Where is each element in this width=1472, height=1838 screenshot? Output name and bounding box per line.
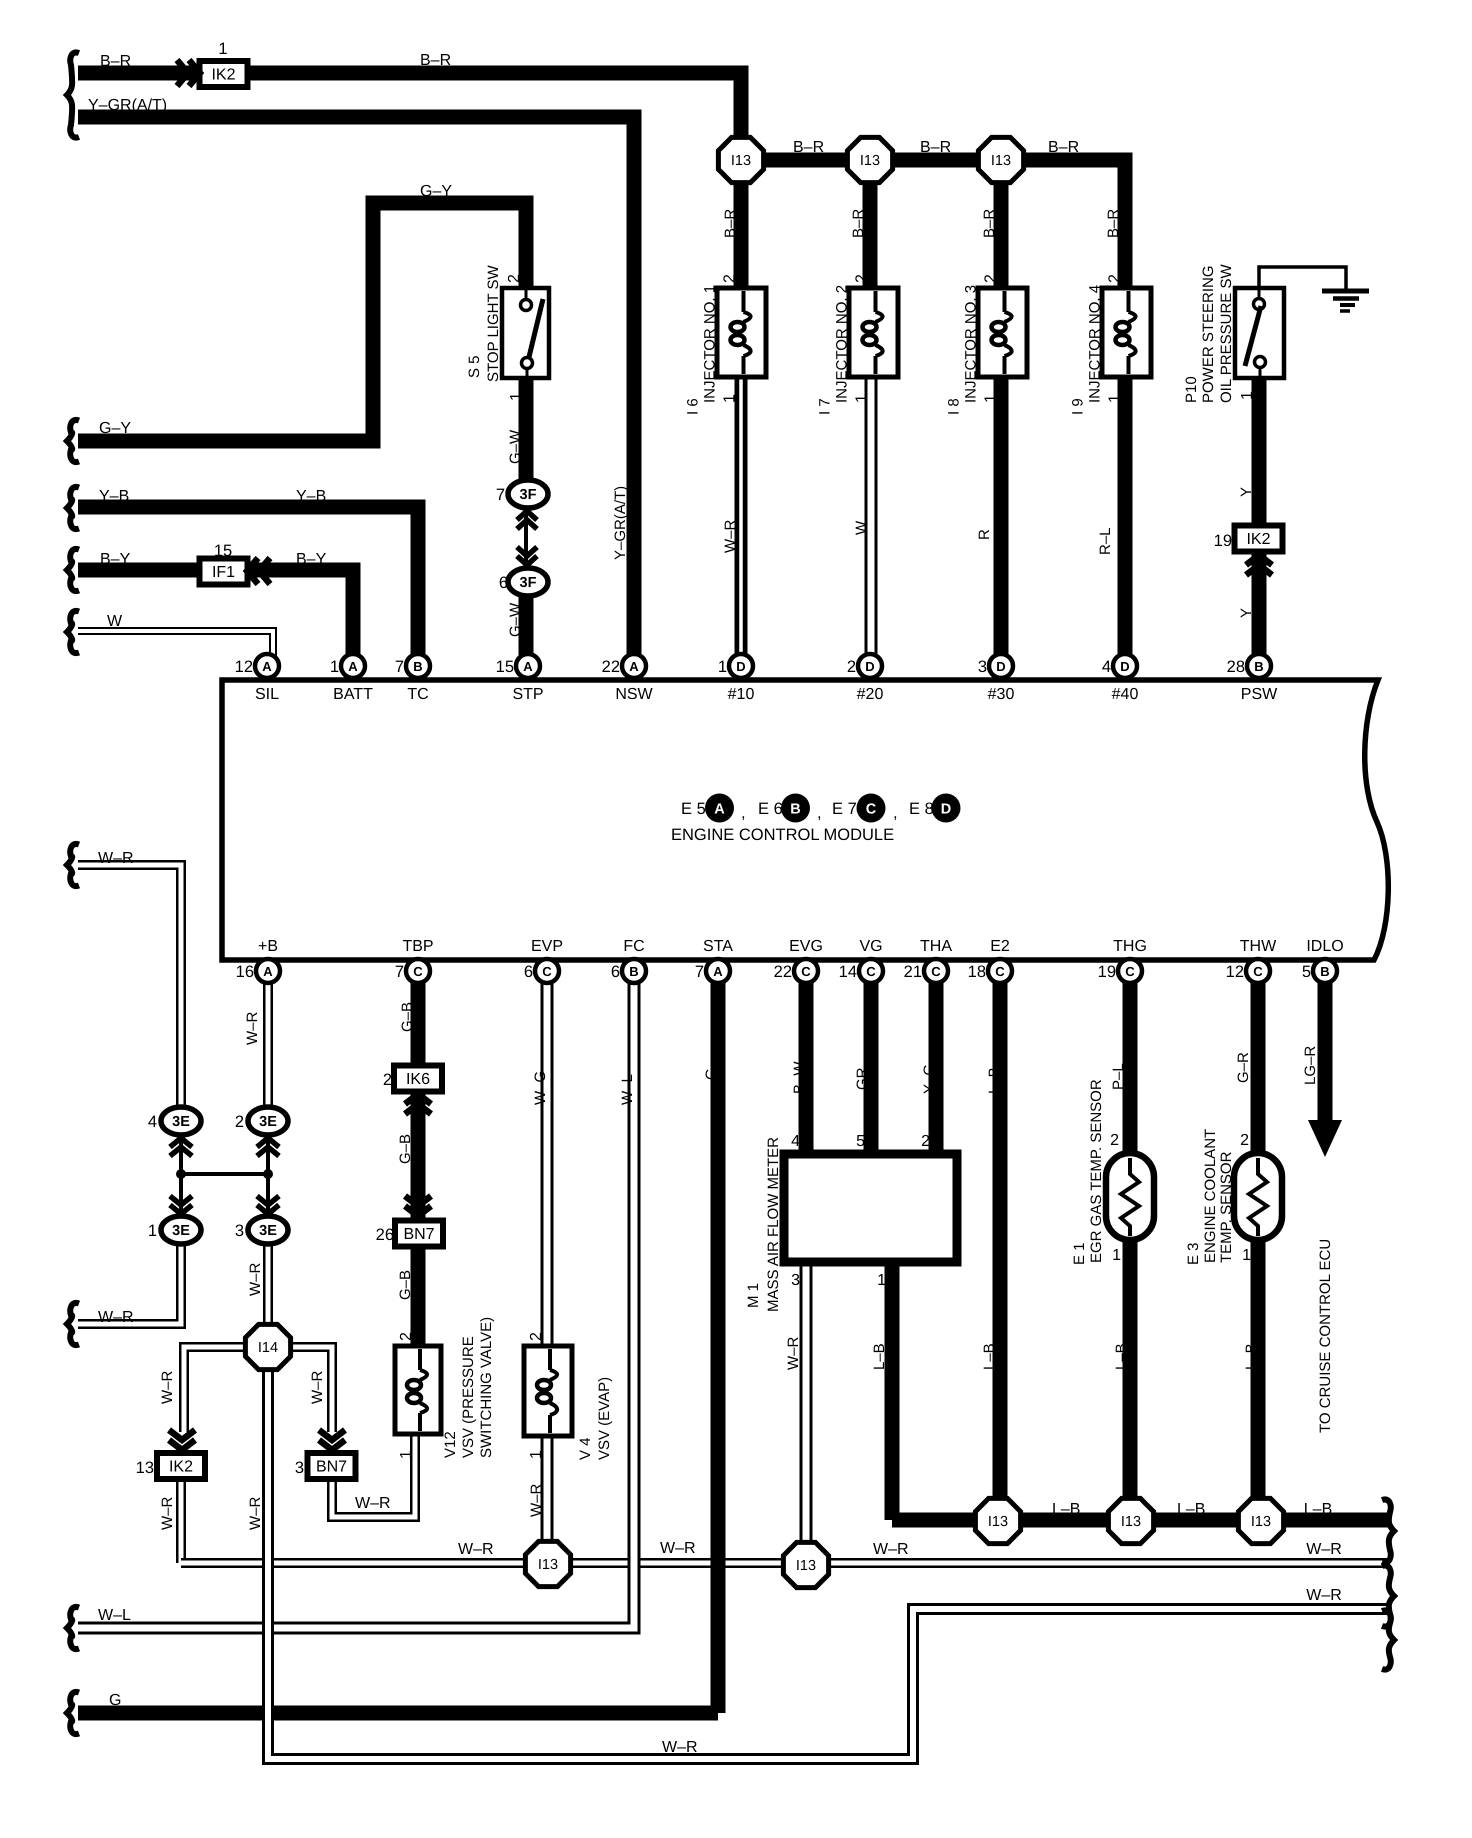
wire B-R from connector to I13 junction xyxy=(78,73,741,165)
svg-text:6: 6 xyxy=(499,574,508,592)
svg-text:1: 1 xyxy=(1239,391,1256,400)
svg-text:2: 2 xyxy=(383,1071,392,1089)
svg-text:Y: Y xyxy=(1238,608,1255,618)
svg-text:3E: 3E xyxy=(259,1223,277,1239)
svg-text:7: 7 xyxy=(395,658,404,676)
svg-text:I14: I14 xyxy=(258,1340,278,1356)
svg-text:I13: I13 xyxy=(538,1557,558,1573)
svg-text:D: D xyxy=(996,659,1005,674)
svg-text:P10: P10 xyxy=(1183,376,1200,403)
svg-text:TC: TC xyxy=(407,686,428,703)
junction code IK2 wire 1 xyxy=(0,0,248,87)
svg-text:W–R: W–R xyxy=(309,1371,326,1405)
junction code BN7 wire 26 xyxy=(376,1221,443,1247)
injector I6 INJECTOR NO. 1 xyxy=(717,288,766,377)
chevron arrows between 3F connectors xyxy=(517,511,537,566)
svg-text:P–L: P–L xyxy=(1110,1063,1127,1090)
svg-text:B–Y: B–Y xyxy=(296,551,327,568)
svg-text:G–B: G–B xyxy=(397,1270,414,1300)
ECM top pin 15A STP xyxy=(496,654,540,678)
wire L-B rail to right connector xyxy=(892,1513,1388,1528)
svg-text:1: 1 xyxy=(722,394,739,403)
svg-text:1: 1 xyxy=(1242,1247,1251,1264)
wire R-L injector 4 to pin #40 xyxy=(1118,374,1133,667)
svg-text:THW: THW xyxy=(1240,938,1277,955)
svg-text:12: 12 xyxy=(235,658,253,676)
wire W-R IK2 to rail xyxy=(176,1478,186,1563)
junction code BN7 wire 3 xyxy=(295,1453,356,1479)
wire R injector 3 to pin #30 xyxy=(994,374,1009,667)
svg-text:B: B xyxy=(413,659,422,674)
svg-text:G–B: G–B xyxy=(397,1134,414,1164)
svg-text:TEMP. SENSOR: TEMP. SENSOR xyxy=(1218,1151,1235,1263)
svg-text:W–R: W–R xyxy=(244,1012,261,1046)
junction I13 a xyxy=(718,137,763,182)
svg-text:W: W xyxy=(107,613,123,630)
wire L-B EGR sensor to I13 junction xyxy=(1123,1238,1138,1521)
wire LG-R IDLO pin to cruise control ECU arrow xyxy=(1308,963,1342,1157)
chevron arrows into IK2 13 xyxy=(169,1430,195,1450)
svg-text:ENGINE CONTROL MODULE: ENGINE CONTROL MODULE xyxy=(671,826,894,844)
chevron arrows into IK2 19 xyxy=(1246,555,1272,575)
svg-text:18: 18 xyxy=(968,963,986,981)
svg-text:D: D xyxy=(736,659,745,674)
wire B-W EVG pin to air flow meter xyxy=(799,963,814,1155)
svg-text:2: 2 xyxy=(1110,1132,1119,1149)
svg-text:I13: I13 xyxy=(988,1514,1008,1530)
ground xyxy=(1322,291,1369,311)
svg-text:V12: V12 xyxy=(442,1431,459,1458)
svg-text:INJECTOR NO. 2: INJECTOR NO. 2 xyxy=(834,285,851,403)
left connector brace W-L xyxy=(67,1607,79,1649)
ECM connector list E5 A, E6 B, E7 C, E8 D xyxy=(681,794,961,823)
svg-text:A: A xyxy=(714,802,725,818)
svg-text:Y–GR(A/T): Y–GR(A/T) xyxy=(88,97,167,114)
svg-text:I13: I13 xyxy=(1251,1514,1271,1530)
ECM bottom pin 16A +B xyxy=(236,959,280,983)
svg-text:1: 1 xyxy=(983,394,1000,403)
wire G-W junction 3F to STP pin xyxy=(519,593,534,667)
svg-text:6: 6 xyxy=(611,963,620,981)
wire W-R rail to right connector xyxy=(181,1558,1388,1568)
svg-text:B–R: B–R xyxy=(1048,139,1079,156)
svg-text:FC: FC xyxy=(623,938,644,955)
svg-text:G–W: G–W xyxy=(507,429,524,464)
svg-text:THA: THA xyxy=(920,938,952,955)
svg-text:E 1: E 1 xyxy=(1071,1242,1088,1265)
svg-text:B–R: B–R xyxy=(793,139,824,156)
wire W-R +B pin to connector 3E xyxy=(263,963,273,1110)
connector junction 3E pin 3 xyxy=(235,1216,288,1244)
ECM bottom pin 12C THW xyxy=(1226,959,1270,983)
chevron arrows into IK6 xyxy=(405,1094,431,1114)
svg-text:12: 12 xyxy=(1226,963,1244,981)
svg-text:W–R: W–R xyxy=(355,1495,391,1512)
wire Y-G THA pin to air flow meter xyxy=(929,963,944,1155)
svg-text:W–R: W–R xyxy=(159,1371,176,1405)
svg-text:E 7: E 7 xyxy=(832,800,857,818)
svg-text:W–R: W–R xyxy=(1306,1541,1342,1558)
svg-text:L–B: L–B xyxy=(1304,1501,1332,1518)
svg-text:C: C xyxy=(866,802,877,818)
wire Y-GR(A/T) to NSW pin xyxy=(78,117,634,667)
wire W-R 3E pin 3 to I14 junction xyxy=(263,1243,273,1325)
svg-text:Y–B: Y–B xyxy=(296,488,326,505)
svg-text:Y: Y xyxy=(1238,487,1255,497)
svg-text:16: 16 xyxy=(236,963,254,981)
svg-text:L–B: L–B xyxy=(981,1343,998,1370)
svg-text:C: C xyxy=(413,964,423,979)
wire W-G EVP pin to VSV V4 xyxy=(541,983,554,1349)
component M1 mass air flow meter box xyxy=(784,1154,957,1262)
svg-text:A: A xyxy=(263,964,273,979)
svg-text:W–R: W–R xyxy=(247,1497,264,1531)
engine control module ECM box outline xyxy=(222,680,1388,960)
ECM bottom pin 6B FC xyxy=(611,959,646,983)
ECM bottom pin 21C THA xyxy=(904,959,948,983)
svg-text:IF1: IF1 xyxy=(212,564,235,581)
svg-text:#40: #40 xyxy=(1112,686,1139,703)
svg-text:VG: VG xyxy=(859,938,882,955)
svg-text:1: 1 xyxy=(877,1272,886,1289)
svg-text:Y–GR(A/T): Y–GR(A/T) xyxy=(612,486,629,560)
svg-text:2: 2 xyxy=(506,274,523,283)
wire W-R VSV V4 to I13 junction xyxy=(541,1433,554,1546)
svg-text:G: G xyxy=(109,1692,121,1709)
svg-text:INJECTOR NO. 1: INJECTOR NO. 1 xyxy=(702,285,719,403)
svg-text:C: C xyxy=(1125,964,1135,979)
svg-text:IK6: IK6 xyxy=(406,1071,430,1088)
ECM top pin 28B PSW xyxy=(1227,654,1271,678)
svg-text:G–Y: G–Y xyxy=(420,183,452,200)
wire G-B TBP pin to IK6 xyxy=(411,963,426,1069)
wire W-R I14 branch to BN7 xyxy=(290,1347,332,1432)
svg-text:B: B xyxy=(790,802,800,818)
svg-text:3E: 3E xyxy=(259,1114,277,1130)
wire W-R 3E pin 1 to left connector xyxy=(78,1243,181,1324)
svg-text:POWER STEERING: POWER STEERING xyxy=(1200,265,1217,403)
svg-text:G–B: G–B xyxy=(399,1002,416,1032)
svg-text:BN7: BN7 xyxy=(316,1459,347,1476)
ECM top pin 1D #10 xyxy=(718,654,753,678)
svg-text:W–R: W–R xyxy=(722,520,739,554)
svg-text:B–R: B–R xyxy=(920,139,951,156)
svg-text:7: 7 xyxy=(496,486,505,504)
left connector brace B-R / Y-GR xyxy=(67,52,79,137)
junction I13 g xyxy=(1108,1498,1153,1543)
connector junction 3E pin 2 xyxy=(235,1107,288,1135)
svg-text:I 9: I 9 xyxy=(1070,398,1087,415)
svg-text:IK2: IK2 xyxy=(1246,531,1270,548)
svg-text:E 8: E 8 xyxy=(909,800,934,818)
svg-text:C: C xyxy=(995,964,1005,979)
ECM top pin 7B TC xyxy=(395,654,430,678)
sensor E1 EGR gas temp sensor xyxy=(1106,1153,1154,1240)
svg-text:13: 13 xyxy=(136,1459,154,1477)
svg-text:W–R: W–R xyxy=(873,1541,909,1558)
sensor E3 engine coolant temp sensor xyxy=(1234,1153,1282,1240)
svg-text:5: 5 xyxy=(1302,963,1311,981)
right connector brace L-B W-R xyxy=(1382,1499,1394,1562)
svg-text:B–Y: B–Y xyxy=(100,551,131,568)
connector junction 3F pin 6 xyxy=(499,568,548,596)
svg-text:B: B xyxy=(1320,964,1329,979)
junction I14 xyxy=(245,1324,290,1369)
svg-text:W: W xyxy=(853,520,870,535)
svg-text:W–R: W–R xyxy=(785,1337,802,1371)
svg-text:4: 4 xyxy=(1102,658,1111,676)
svg-text:2: 2 xyxy=(235,1113,244,1131)
svg-text:D: D xyxy=(865,659,874,674)
svg-text:2: 2 xyxy=(528,1332,545,1341)
svg-text:3: 3 xyxy=(791,1272,800,1289)
wire W-R air flow meter pin 3 to I13 junction xyxy=(800,1264,813,1546)
svg-text:B–R: B–R xyxy=(850,209,867,238)
svg-text:#10: #10 xyxy=(728,686,755,703)
switch P10 power steering oil pressure SW xyxy=(1235,288,1284,378)
wire L-B coolant sensor to I13 junction xyxy=(1251,1238,1266,1521)
svg-text:STP: STP xyxy=(512,686,543,703)
left connector brace Y-B xyxy=(67,487,79,529)
svg-text:I13: I13 xyxy=(1121,1514,1141,1530)
svg-text:7: 7 xyxy=(695,963,704,981)
svg-text:PSW: PSW xyxy=(1241,686,1278,703)
svg-text:1: 1 xyxy=(854,394,871,403)
svg-text:I13: I13 xyxy=(796,1558,816,1574)
wire G-B IK6 to BN7 xyxy=(411,1088,426,1225)
wire L-B E2 pin to I13 junction xyxy=(993,963,1008,1521)
svg-text:+B: +B xyxy=(258,938,278,955)
wire W injector 2 to pin #20 xyxy=(865,374,878,667)
svg-text:R: R xyxy=(976,529,993,540)
junction I13 c xyxy=(978,137,1023,182)
svg-text:M 1: M 1 xyxy=(745,1283,762,1308)
svg-text:G–R: G–R xyxy=(1235,1052,1252,1083)
wire W-R BN7 to VSV V12 pin 1 xyxy=(332,1432,415,1517)
chevron arrows into IF1 xyxy=(247,558,270,584)
solenoid valve V12 VSV pressure switching valve xyxy=(395,1346,441,1434)
svg-text:2: 2 xyxy=(921,1133,930,1150)
svg-text:1: 1 xyxy=(718,658,727,676)
svg-text:BN7: BN7 xyxy=(403,1226,434,1243)
left connector brace G-Y xyxy=(67,420,79,462)
wire B-R drop to injector 3 xyxy=(994,160,1009,291)
wire L-B air flow meter pin 1 down xyxy=(885,1264,900,1520)
injector I7 INJECTOR NO. 2 xyxy=(849,288,898,377)
svg-text:2: 2 xyxy=(847,658,856,676)
chevron arrows into BN7 26 xyxy=(405,1196,431,1216)
junction code IF1 wire 15 xyxy=(200,559,248,585)
wire W-L FC pin to left connector xyxy=(78,983,634,1628)
svg-text:3: 3 xyxy=(978,658,987,676)
connector junction 3E pin 4 xyxy=(148,1107,201,1135)
svg-text:I 8: I 8 xyxy=(946,398,963,415)
svg-text:W–R: W–R xyxy=(458,1541,494,1558)
svg-text:STA: STA xyxy=(703,938,733,955)
svg-text:D: D xyxy=(1120,659,1129,674)
svg-text:W–G: W–G xyxy=(532,1071,549,1105)
svg-text:OIL PRESSURE SW: OIL PRESSURE SW xyxy=(1218,264,1235,403)
svg-text:INJECTOR NO. 3: INJECTOR NO. 3 xyxy=(963,285,980,403)
ECM top pin 4D #40 xyxy=(1102,654,1137,678)
svg-text:4: 4 xyxy=(791,1133,800,1150)
svg-text:W–L: W–L xyxy=(619,1074,636,1105)
svg-text:1: 1 xyxy=(218,40,227,58)
svg-text:2: 2 xyxy=(983,274,1000,283)
svg-text:IK2: IK2 xyxy=(169,1459,193,1476)
svg-text:L–B: L–B xyxy=(1243,1343,1260,1370)
svg-text:1: 1 xyxy=(148,1222,157,1240)
left connector brace W xyxy=(67,611,79,653)
svg-text:A: A xyxy=(523,659,533,674)
svg-text:B: B xyxy=(629,964,638,979)
svg-text:E 3: E 3 xyxy=(1185,1242,1202,1265)
svg-text:EVG: EVG xyxy=(789,938,823,955)
wire GR VG pin to air flow meter xyxy=(864,963,879,1155)
wire B-R drop to injector 1 xyxy=(734,160,749,291)
svg-text:E 6: E 6 xyxy=(758,800,783,818)
connector junction 3F pin 7 xyxy=(496,480,548,508)
ECM bottom pin 14C VG xyxy=(839,959,883,983)
svg-text:L–B: L–B xyxy=(871,1343,888,1370)
svg-text:A: A xyxy=(713,964,723,979)
svg-text:I 7: I 7 xyxy=(817,398,834,415)
svg-text:C: C xyxy=(931,964,941,979)
svg-text:Y–B: Y–B xyxy=(99,488,129,505)
svg-text:L–B: L–B xyxy=(1177,1501,1205,1518)
svg-text:IDLO: IDLO xyxy=(1306,938,1343,955)
ECM top pin 22A NSW xyxy=(602,654,646,678)
svg-text:VSV (EVAP): VSV (EVAP) xyxy=(596,1377,613,1460)
ECM bottom pin 18C E2 xyxy=(968,959,1012,983)
ECM top pin 12A SIL xyxy=(235,654,279,678)
svg-text:1: 1 xyxy=(1107,394,1124,403)
ECM bottom pin 7A STA xyxy=(695,959,730,983)
junction code IK6 wire 2 xyxy=(383,1066,442,1092)
svg-text:EVP: EVP xyxy=(531,938,563,955)
svg-text:STOP LIGHT SW: STOP LIGHT SW xyxy=(485,264,502,382)
wire W-R I14 branch to IK2 xyxy=(184,1347,246,1432)
svg-text:VSV (PRESSURE: VSV (PRESSURE xyxy=(460,1336,477,1458)
wire Y IK2 to PSW pin xyxy=(1252,549,1267,667)
wire W-R left connector to 3E pin 4 xyxy=(78,865,181,1110)
wire W-R I14 down and around to right connector xyxy=(268,1369,1388,1759)
right connector brace W-R lower xyxy=(1382,1610,1394,1669)
svg-text:R–L: R–L xyxy=(1097,527,1114,555)
svg-text:W–R: W–R xyxy=(247,1263,264,1297)
wire W to SIL pin xyxy=(78,631,273,667)
svg-text:I13: I13 xyxy=(991,153,1011,169)
svg-text:SIL: SIL xyxy=(255,686,279,703)
svg-text:GR: GR xyxy=(854,1067,871,1090)
chevron arrows into IK2 xyxy=(177,60,200,86)
chevron arrows at 3E connectors xyxy=(170,1138,279,1214)
svg-text:EGR GAS TEMP. SENSOR: EGR GAS TEMP. SENSOR xyxy=(1088,1079,1105,1263)
svg-text:B–R: B–R xyxy=(722,209,739,238)
svg-text:W–R: W–R xyxy=(1306,1587,1342,1604)
wire Y pressure switch to IK2 xyxy=(1252,375,1267,528)
svg-text:W–R: W–R xyxy=(662,1739,698,1756)
svg-text:S 5: S 5 xyxy=(466,355,483,378)
svg-text:#30: #30 xyxy=(988,686,1015,703)
wire B-R drop to injector 2 xyxy=(863,160,878,291)
svg-text:3F: 3F xyxy=(520,575,537,591)
wire power steering switch to ground xyxy=(1259,267,1346,291)
wire G-Y to stop light switch xyxy=(78,203,526,441)
svg-text:L–B: L–B xyxy=(1113,1343,1130,1370)
svg-text:3E: 3E xyxy=(172,1114,190,1130)
svg-text:Y–G: Y–G xyxy=(921,1064,938,1094)
ECM bottom pin 22C EVG xyxy=(774,959,818,983)
svg-text:TBP: TBP xyxy=(402,938,433,955)
svg-text:C: C xyxy=(542,964,552,979)
ECM top pin 1A BATT xyxy=(330,654,365,678)
svg-text:,: , xyxy=(817,804,822,822)
wire B-R rail to injectors xyxy=(741,160,1125,291)
svg-text:3F: 3F xyxy=(520,487,537,503)
wire Y-B to TC pin xyxy=(78,507,418,667)
left connector brace W-R lower xyxy=(67,1303,79,1345)
right connector brace W-R middle xyxy=(1382,1565,1394,1626)
junction I13 d xyxy=(525,1541,570,1586)
link wires between 3E connectors xyxy=(176,1135,273,1216)
svg-text:W–R: W–R xyxy=(660,1540,696,1557)
wire G STA pin to left connector xyxy=(78,963,718,1713)
svg-text:BATT: BATT xyxy=(333,686,373,703)
svg-text:15: 15 xyxy=(214,542,232,560)
svg-text:7: 7 xyxy=(395,963,404,981)
svg-text:W–R: W–R xyxy=(159,1497,176,1531)
svg-text:1: 1 xyxy=(398,1450,415,1459)
svg-text:G–Y: G–Y xyxy=(99,420,131,437)
svg-text:21: 21 xyxy=(904,963,922,981)
svg-text:26: 26 xyxy=(376,1226,394,1244)
svg-text:E2: E2 xyxy=(990,938,1010,955)
ECM bottom pin 6C EVP xyxy=(524,959,559,983)
svg-text:22: 22 xyxy=(774,963,792,981)
svg-text:E 5: E 5 xyxy=(681,800,706,818)
svg-text:2: 2 xyxy=(1107,274,1124,283)
left connector brace W-R upper xyxy=(67,844,79,886)
svg-text:,: , xyxy=(741,804,746,822)
svg-text:G: G xyxy=(703,1068,720,1080)
ECM bottom pin 7C TBP xyxy=(395,959,430,983)
svg-text:22: 22 xyxy=(602,658,620,676)
wire G-R THW pin to coolant temp sensor xyxy=(1251,963,1266,1156)
svg-text:2: 2 xyxy=(722,274,739,283)
svg-text:W–L: W–L xyxy=(98,1607,131,1624)
svg-text:W–R: W–R xyxy=(528,1484,545,1518)
injector I9 INJECTOR NO. 4 xyxy=(1102,288,1151,377)
svg-text:28: 28 xyxy=(1227,658,1245,676)
connector junction 3E pin 1 xyxy=(148,1216,201,1244)
svg-text:L–B: L–B xyxy=(1052,1501,1080,1518)
svg-text:I13: I13 xyxy=(731,153,751,169)
svg-text:2: 2 xyxy=(1240,1132,1249,1149)
svg-text:14: 14 xyxy=(839,963,857,981)
svg-text:THG: THG xyxy=(1113,938,1147,955)
svg-text:MASS AIR FLOW METER: MASS AIR FLOW METER xyxy=(765,1137,782,1312)
chevron arrows into BN7 3 xyxy=(319,1430,345,1450)
wire G-B BN7 to VSV V12 xyxy=(411,1242,426,1349)
left connector brace B-Y xyxy=(67,549,79,591)
svg-text:3E: 3E xyxy=(172,1223,190,1239)
svg-text:C: C xyxy=(801,964,811,979)
svg-text:B–R: B–R xyxy=(100,53,131,70)
ECM top pin 3D #30 xyxy=(978,654,1013,678)
svg-text:B–R: B–R xyxy=(981,209,998,238)
svg-text:,: , xyxy=(893,804,898,822)
